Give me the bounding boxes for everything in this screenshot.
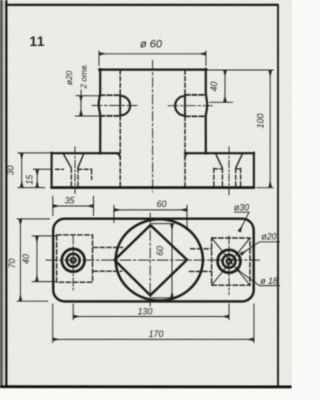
- column left edge (with scan wiggle): [99, 69, 101, 154]
- svg-text:ø20: ø20: [64, 70, 74, 85]
- base right end vertical: [253, 153, 255, 188]
- frame left line: [5, 0, 7, 387]
- svg-text:ø30: ø30: [234, 203, 249, 213]
- svg-text:40: 40: [209, 82, 219, 92]
- svg-text:2 отв.: 2 отв.: [79, 63, 89, 89]
- plan horizontal centerline: [46, 259, 260, 261]
- frame bottom line: [0, 385, 292, 388]
- label ø20 dimension line with arrows: [80, 90, 82, 116]
- label ø20 shelf and leader: [241, 242, 280, 255]
- svg-text:ø 60: ø 60: [140, 39, 163, 51]
- frame top line: [5, 4, 278, 6]
- right top extension line: [207, 69, 274, 71]
- svg-text:60: 60: [157, 199, 167, 209]
- dim 40 bottom extension: [210, 101, 234, 103]
- right side hole hidden bottom line: [185, 115, 206, 117]
- left hole outer circle: [62, 249, 85, 272]
- dim 130 extension lines: [73, 304, 229, 321]
- left hole horizontal centerline: [92, 105, 137, 107]
- frame right line: [277, 5, 279, 388]
- dim 30 line: [21, 153, 23, 187]
- svg-text:ø 18: ø 18: [260, 276, 278, 286]
- right foot hidden shoulder dashes: [214, 168, 241, 170]
- right pad diagonals: [212, 238, 250, 285]
- foot top edge left segment: [52, 152, 119, 154]
- column top edge: [99, 68, 207, 70]
- label ø18 shelf and leader: [236, 269, 280, 286]
- svg-text:60: 60: [155, 246, 165, 256]
- square hole diamond: [115, 225, 188, 295]
- svg-text:70: 70: [7, 259, 17, 269]
- base left end vertical: [51, 153, 53, 188]
- svg-text:130: 130: [138, 307, 153, 317]
- left foot hidden hole dashes: [71, 168, 91, 187]
- left pad hidden square: [57, 235, 93, 282]
- step line / 15-dim extension: [33, 168, 51, 170]
- dim 40 line: [36, 236, 38, 281]
- left hole inner circle: [67, 254, 80, 267]
- left hole center dot: [71, 258, 76, 263]
- svg-text:170: 170: [149, 329, 164, 339]
- dim 170 extension lines: [53, 304, 254, 344]
- dim 40 extension lines: [32, 236, 57, 282]
- left foot centerline: [74, 147, 76, 194]
- left foot countersink cone: [64, 154, 84, 168]
- dim ø60 extension lines: [99, 51, 206, 66]
- dim ø60 line: [99, 53, 206, 55]
- dim 100 bottom extension: [257, 187, 274, 189]
- dim 35 extension lines: [53, 196, 94, 216]
- central boss circle: [116, 219, 203, 300]
- corner hooks where top edges meet hidden verticals: [116, 153, 188, 157]
- right hole vertical centerline: [228, 236, 230, 295]
- dim 35 line: [53, 205, 93, 207]
- dim 60 horizontal line: [114, 209, 187, 211]
- right hole horizontal centerline: [168, 105, 213, 107]
- svg-text:35: 35: [65, 196, 75, 206]
- right foot hidden hole and pad dashes: [214, 168, 241, 187]
- svg-text:30: 30: [6, 165, 16, 175]
- right foot centerline: [228, 147, 230, 197]
- foot top edge right segment: [185, 152, 254, 154]
- dim 130 line: [73, 316, 228, 318]
- left hole bottom line extension: [75, 115, 100, 117]
- left side hole hidden top line: [100, 94, 120, 96]
- dim 70 line: [19, 219, 21, 301]
- svg-text:15: 15: [24, 175, 34, 185]
- svg-text:11: 11: [30, 34, 45, 49]
- column vertical centerline: [152, 61, 154, 193]
- scan edge gray sliver: [0, 0, 3, 388]
- hidden square-hole left edge (dashed, solid across hole): [119, 70, 121, 95]
- svg-text:ø20: ø20: [261, 232, 276, 242]
- right side hole hidden top line: [185, 94, 206, 96]
- rib hidden lines right: [189, 249, 211, 272]
- right hole center dot: [227, 259, 232, 264]
- hidden square-hole right edge (dashed, solid across hole): [184, 70, 186, 95]
- left hole vertical centerline: [72, 236, 74, 291]
- left hole top line extension: [76, 95, 100, 97]
- dim 30 extension lines: [18, 153, 52, 188]
- plan central vertical centerline: [149, 213, 151, 306]
- left foot hidden shoulder dashes: [56, 168, 92, 170]
- dim 15 line: [36, 170, 38, 188]
- dim 70 extension lines: [17, 219, 50, 301]
- left side hole end arc: [120, 96, 130, 116]
- dim 60 vertical line: [171, 224, 173, 298]
- dim 100 line: [269, 70, 271, 187]
- svg-text:100: 100: [256, 114, 266, 129]
- right side hole end arc: [175, 96, 185, 116]
- right pad hidden square: [212, 238, 250, 285]
- dim 60 horizontal extension lines: [114, 205, 187, 230]
- right foot countersink cone: [216, 154, 243, 168]
- left side hole hidden bottom line: [100, 115, 120, 117]
- rib hidden lines left: [93, 247, 122, 271]
- column right edge (with scan wiggle): [206, 69, 208, 154]
- svg-text:40: 40: [21, 254, 31, 264]
- right hole outer circle: [218, 250, 241, 273]
- dim 40 line: [224, 70, 226, 102]
- dim 170 line: [53, 338, 254, 340]
- right hole inner circle: [223, 255, 236, 268]
- label ø30 shelf and leader: [234, 212, 249, 231]
- plate rounded rectangle: [53, 219, 254, 302]
- dim 60 vertical extension lines: [151, 224, 175, 298]
- base bottom edge: [52, 186, 255, 189]
